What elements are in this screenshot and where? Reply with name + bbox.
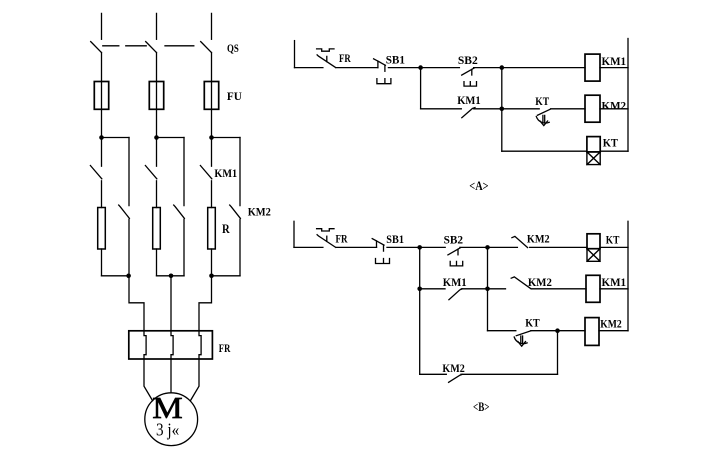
wire A rung1 seg5: [600, 67, 628, 69]
wire B rung3 seg2: [531, 330, 585, 332]
pushbutton SB2 A cap: [464, 82, 477, 87]
wire phase 2 QS to node: [156, 53, 158, 138]
switch QS pole 3 blade: [201, 42, 212, 53]
svg-text:QS: QS: [227, 41, 239, 55]
pushbutton SB2 B cap: [450, 261, 463, 266]
contact KT B delay arrow: [518, 336, 526, 346]
svg-text:SB2: SB2: [444, 232, 463, 246]
svg-text:KT: KT: [606, 233, 620, 247]
svg-text:<A>: <A>: [469, 178, 488, 193]
wire leg to FR phase 1: [129, 276, 144, 331]
svg-text:FU: FU: [227, 89, 242, 103]
pushbutton SB1 B blade: [377, 241, 385, 245]
pushbutton SB2 A stub: [471, 70, 473, 76]
wire B riser node1 to rung4: [419, 247, 421, 374]
coil KM1 B: [586, 275, 600, 302]
contact KT A delay arrow: [540, 115, 548, 125]
FR heater element 2: [171, 331, 173, 359]
wire A rung2 seg4: [600, 108, 628, 110]
wire A rung3 seg1: [502, 150, 587, 152]
wire motor lead 2: [170, 359, 172, 393]
fuse FU 1: [94, 82, 108, 110]
contact FR A blade: [317, 55, 336, 68]
pushbutton SB1 B cap: [376, 259, 390, 264]
wire B rung1 seg5: [530, 246, 587, 248]
junction bottom phase 3: [209, 274, 214, 279]
svg-text:FR: FR: [336, 231, 348, 245]
junction B node2: [485, 245, 490, 250]
wire bottom join phase 3: [212, 275, 241, 277]
motor M1 circle: [145, 393, 198, 446]
pushbutton SB1 B post: [372, 239, 376, 248]
wire B rung4 seg1: [420, 373, 447, 375]
wire B rung3 seg3: [599, 330, 628, 332]
wire L2 incoming: [156, 13, 158, 39]
svg-text:SB1: SB1: [386, 232, 404, 246]
junction bottom phase 2: [169, 274, 174, 279]
wire branch 1 horizontal: [102, 137, 130, 139]
circuit A right rail: [627, 39, 629, 152]
wire phase 3 QS to node: [211, 53, 213, 138]
junction B node2b: [485, 287, 490, 292]
wire bottom join phase 1: [102, 275, 130, 277]
wire B rung4 riser up: [557, 331, 559, 375]
wire branch 2 horizontal: [157, 137, 185, 139]
svg-text:KM1: KM1: [457, 93, 481, 107]
wire phase 1 node to contact: [101, 138, 103, 167]
switch QS pole 2 blade: [146, 42, 157, 53]
svg-text:KM1: KM1: [443, 275, 467, 289]
contact FR B thermal marker: [317, 229, 334, 231]
wire branch 1 contact to bottom: [128, 219, 130, 275]
junction A node1: [418, 65, 423, 70]
wire A rung1 seg1: [295, 67, 323, 69]
contact KM1 pole 1 blade: [90, 166, 101, 179]
wire phase 2 node to contact: [156, 138, 158, 167]
coil KT A delay box: [587, 152, 600, 165]
junction A node2: [500, 65, 505, 70]
coil KT B delay box: [587, 249, 600, 262]
contact KT B delay arc: [514, 337, 527, 344]
pushbutton SB1 A blade: [378, 61, 386, 65]
junction B node1b: [417, 287, 422, 292]
wire phase 3 resistor to bottom: [211, 249, 213, 276]
junction node phase 2: [154, 135, 159, 140]
wire B rung1 seg3: [387, 246, 445, 248]
switch QS linkage dashed: [103, 45, 194, 47]
wire phase 1 contact to resistor: [101, 181, 103, 208]
wire branch 2 vertical: [183, 138, 185, 206]
wire phase 2 contact to resistor: [156, 181, 158, 208]
junction A node3: [500, 107, 505, 112]
wire A rung1 seg4: [474, 67, 585, 69]
wire B rung1 seg4: [460, 246, 518, 248]
wire motor lead 1: [144, 359, 153, 401]
wire A riser node1 to rung2: [420, 68, 422, 109]
junction node phase 3: [209, 135, 214, 140]
wire B rung1 seg2: [336, 246, 377, 248]
wire branch 3 contact to bottom: [239, 219, 241, 275]
wire A riser node2 to rung3: [501, 68, 503, 152]
wire phase 3 node to contact: [211, 138, 213, 167]
contact KM2 pole 3 blade: [230, 205, 241, 218]
wire branch 1 vertical: [128, 138, 130, 206]
thermal relay FR heater box: [129, 331, 213, 359]
contact KM2 B rung1 blade: [512, 236, 528, 247]
circuit B right rail: [627, 221, 629, 330]
FR heater element 3: [199, 331, 201, 359]
svg-text:SB2: SB2: [458, 53, 478, 67]
wire phase 1 resistor to bottom: [101, 249, 103, 276]
wire B rung2 seg4: [600, 288, 628, 290]
circuit A left rail: [294, 41, 296, 68]
svg-text:SB1: SB1: [386, 53, 405, 67]
pushbutton SB1 B stem: [383, 245, 385, 251]
contact FR A thermal marker: [317, 49, 334, 51]
wire B rung1 seg6: [600, 246, 628, 248]
junction B node3: [555, 328, 560, 333]
svg-text:FR: FR: [219, 341, 231, 355]
svg-text:KT: KT: [603, 135, 618, 149]
wire leg to FR phase 3: [199, 276, 212, 331]
coil KT B box: [587, 234, 600, 249]
contact KM1 A blade: [462, 108, 475, 118]
wire A rung1 seg2: [336, 67, 378, 69]
FR heater element 1: [144, 331, 146, 359]
junction bottom phase 1: [126, 274, 131, 279]
pushbutton SB1 A stem: [384, 65, 386, 71]
contact KM1 pole 2 blade: [145, 166, 156, 179]
wire B rung3 seg1: [488, 330, 516, 332]
contact FR B blade: [317, 235, 336, 248]
wire B rung2 seg3: [532, 288, 586, 290]
wire B rung2 seg1: [420, 288, 445, 290]
svg-text:KM2: KM2: [442, 361, 464, 375]
svg-text:KM2: KM2: [527, 231, 550, 245]
svg-text:KM1: KM1: [602, 54, 627, 68]
fuse FU 3: [204, 82, 218, 110]
wire A rung3 seg2: [600, 150, 628, 152]
svg-text:FR: FR: [339, 51, 351, 65]
resistor R phase 3: [208, 208, 216, 250]
contact KM2 B rung4 blade: [449, 374, 463, 382]
svg-text:KM2: KM2: [600, 317, 622, 331]
wire B riser node2 to rung3: [487, 247, 489, 330]
pushbutton SB2 A blade: [462, 68, 475, 75]
coil KM2 A: [585, 95, 600, 122]
svg-text:KM2: KM2: [528, 275, 552, 289]
wire A rung2 seg2: [474, 108, 539, 110]
contact FR A post: [326, 56, 328, 61]
contact KT A blade: [538, 109, 551, 115]
junction node phase 1: [99, 135, 104, 140]
contact KT A delay arc: [536, 116, 549, 123]
wire A rung2 seg3: [551, 108, 585, 110]
wire branch 3 horizontal: [212, 137, 241, 139]
svg-text:KT: KT: [525, 315, 540, 329]
svg-text:KM1: KM1: [214, 166, 237, 180]
svg-text:<B>: <B>: [473, 399, 490, 414]
wire motor lead 3: [190, 359, 199, 401]
pushbutton SB1 A cap: [377, 79, 391, 84]
svg-text:KM2: KM2: [248, 205, 271, 219]
wire bottom join phase 2: [157, 275, 185, 277]
circuit B left rail: [293, 221, 295, 247]
wire B rung4 seg2: [461, 373, 558, 375]
coil KM1 A: [585, 54, 600, 81]
svg-text:KM2: KM2: [602, 98, 627, 112]
pushbutton SB2 B stub: [457, 249, 459, 255]
contact KT B blade: [516, 331, 531, 336]
contact KM1 pole 3 blade: [200, 166, 211, 179]
wire branch 2 contact to bottom: [183, 219, 185, 275]
contact KM2 B rung2 blade: [511, 277, 531, 289]
coil KT A box: [587, 137, 600, 152]
svg-text:3 ј«: 3 ј«: [156, 420, 179, 440]
wire phase 2 resistor to bottom: [156, 249, 158, 276]
svg-text:KM1: KM1: [602, 275, 627, 289]
pushbutton SB1 A post: [374, 59, 378, 68]
junction B node1: [417, 245, 422, 250]
wire B rung1 seg1: [294, 246, 323, 248]
wire A rung1 seg3: [388, 67, 459, 69]
switch QS pole 1 blade: [91, 42, 102, 53]
contact KM1 B blade: [449, 289, 463, 300]
contact KM2 pole 1 blade: [119, 205, 130, 218]
wire phase 1 QS to node: [101, 53, 103, 138]
wire branch 3 vertical: [239, 138, 241, 206]
svg-text:KT: KT: [535, 94, 549, 108]
fuse FU 2: [149, 82, 163, 110]
wire B rung2 seg2: [461, 288, 505, 290]
wire phase 3 contact to resistor: [211, 181, 213, 208]
wire A rung2 seg1: [421, 108, 462, 110]
wire leg to FR phase 2: [170, 276, 172, 331]
contact KM2 pole 2 blade: [174, 205, 185, 218]
svg-text:R: R: [222, 222, 231, 236]
coil KM2 B: [585, 318, 599, 346]
pushbutton SB2 B blade: [448, 248, 461, 255]
resistor R phase 2: [153, 208, 161, 250]
resistor R phase 1: [98, 208, 106, 250]
wire L3 incoming: [211, 13, 213, 39]
wire L1 incoming: [101, 13, 103, 39]
contact FR B post: [326, 236, 328, 241]
